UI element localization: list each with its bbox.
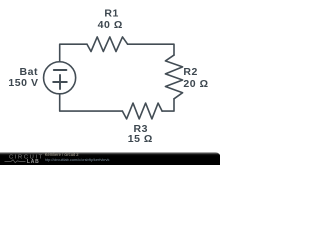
watermark logo squiggle — [5, 160, 26, 163]
svg-text:htp://circuitlab.com/c/crsbfty: htp://circuitlab.com/c/crsbfty/kerfvkrvk — [45, 157, 110, 162]
wire: battery top lead up and right to R1 — [60, 44, 87, 62]
svg-text:R2: R2 — [183, 66, 198, 78]
wire right-bottom segment — [162, 99, 174, 111]
svg-text:150 V: 150 V — [8, 77, 38, 89]
svg-text:15 Ω: 15 Ω — [128, 133, 153, 145]
battery Bat 150 V (voltage source circle) — [44, 62, 76, 94]
resistor R2 — [165, 55, 182, 99]
svg-text:40 Ω: 40 Ω — [98, 19, 123, 31]
resistor R3 — [122, 103, 162, 119]
svg-text:LAB: LAB — [27, 159, 40, 165]
resistor R1 — [87, 37, 128, 52]
svg-text:R1: R1 — [104, 8, 119, 20]
battery minus sign — [54, 69, 67, 71]
battery plus sign — [53, 81, 67, 83]
svg-text:20 Ω: 20 Ω — [183, 78, 208, 90]
wire bottom-left segment — [60, 94, 123, 111]
wire top-right segment — [128, 44, 174, 55]
